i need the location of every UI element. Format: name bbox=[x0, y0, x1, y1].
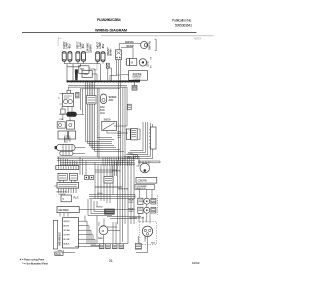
tick rows left of blocks bbox=[117, 132, 121, 138]
junction blob (connector wedge) bbox=[75, 69, 78, 80]
horizontals joining right cluster bbox=[107, 217, 141, 219]
connector J1 bbox=[150, 127, 156, 149]
svg-text:RELAY: RELAY bbox=[128, 208, 134, 211]
bottom label box bbox=[55, 252, 63, 255]
svg-text:ADAPTIVE: ADAPTIVE bbox=[133, 73, 142, 76]
fan motor M2 terminal box bbox=[127, 59, 130, 66]
defrost heater pill 1 bbox=[57, 144, 76, 150]
fan M1 bracket bbox=[155, 40, 157, 51]
condenser fan motor bbox=[140, 163, 150, 173]
svg-text:COND FAN: COND FAN bbox=[138, 180, 148, 183]
svg-text:OVLD: OVLD bbox=[128, 211, 133, 213]
connector strip box bbox=[56, 166, 79, 170]
small component right of verticals bbox=[128, 104, 132, 110]
bus tick hatching bbox=[67, 80, 138, 83]
adaptive defrost control box bbox=[129, 71, 148, 81]
terminal board box bbox=[63, 218, 79, 248]
svg-text:OR HTR: OR HTR bbox=[63, 235, 70, 237]
svg-text:TIMER: TIMER bbox=[98, 238, 104, 240]
defrost timer box bbox=[57, 207, 79, 213]
svg-text:40W: 40W bbox=[67, 43, 71, 48]
aux capsule right of thermostat bbox=[76, 92, 79, 98]
wires below S1 bbox=[110, 60, 121, 160]
small box row in bundle bbox=[87, 96, 97, 105]
bus lines right bbox=[89, 195, 135, 199]
svg-text:CONTROL: CONTROL bbox=[133, 79, 142, 81]
light switch box S1 bbox=[116, 50, 122, 60]
small squares right bbox=[84, 176, 88, 180]
tiny terminal rows bbox=[64, 136, 70, 142]
lamp lead wires bbox=[64, 61, 103, 81]
defrost heater pill 2 bbox=[60, 151, 73, 155]
svg-text:5995363641: 5995363641 bbox=[175, 24, 192, 28]
center capsule sensor bbox=[101, 94, 107, 104]
horizontal bus wires above lower cluster bbox=[57, 157, 135, 164]
svg-text:5: 5 bbox=[63, 197, 65, 201]
svg-text:Publication No.: Publication No. bbox=[172, 19, 192, 23]
relay box A bbox=[58, 173, 67, 180]
dashed wire near lamp L3 bbox=[94, 63, 98, 71]
svg-text:COMP: COMP bbox=[145, 235, 147, 241]
bus wire 4 bbox=[80, 88, 120, 90]
lamp L1a bbox=[62, 52, 66, 62]
fan motor M2 box bbox=[130, 59, 137, 66]
svg-text:SW 2: SW 2 bbox=[83, 74, 88, 76]
relay row A circle bbox=[144, 198, 150, 204]
svg-text:* = Non-Illustrated Parts: * = Non-Illustrated Parts bbox=[22, 261, 49, 265]
lamp L1b bbox=[68, 52, 72, 62]
comb wires into connector strip bbox=[59, 157, 77, 166]
relay box lower stubs bbox=[60, 180, 75, 182]
svg-text:3 15 2: 3 15 2 bbox=[100, 107, 106, 109]
bracket right of blocks bbox=[138, 129, 140, 140]
svg-text:EVAP FAN: EVAP FAN bbox=[149, 41, 152, 50]
wire S2 to bus bbox=[89, 69, 97, 81]
wires x95-116 y157-205 bbox=[95, 162, 113, 203]
lamp L3b bbox=[101, 52, 105, 62]
svg-text:WIRE HARNESS: WIRE HARNESS bbox=[59, 232, 62, 246]
condenser fan verticals bbox=[140, 161, 149, 164]
svg-text:1: 1 bbox=[58, 98, 60, 100]
right verticals from top row down bbox=[116, 75, 127, 163]
hatched plug row bbox=[99, 244, 123, 249]
svg-text:FAN MOTOR: FAN MOTOR bbox=[136, 187, 146, 190]
svg-text:RUN: RUN bbox=[151, 243, 155, 245]
stub left of wide box 2 bbox=[54, 185, 57, 187]
compressor dashed enclosure bbox=[140, 222, 157, 245]
heater pill right leads bbox=[73, 148, 85, 154]
svg-text:15 AMPS: 15 AMPS bbox=[89, 44, 93, 53]
lower small boxes bbox=[58, 131, 67, 139]
control box bbox=[61, 109, 65, 114]
fan motor M2 bbox=[139, 59, 146, 66]
cold control boxes bbox=[57, 122, 65, 128]
svg-text:21: 21 bbox=[109, 259, 113, 263]
small plus box bbox=[133, 155, 137, 159]
relay row B circle bbox=[144, 207, 150, 213]
svg-text:WIRING DIAGRAM: WIRING DIAGRAM bbox=[95, 29, 127, 33]
center vertical bundle wires bbox=[86, 82, 99, 159]
bus wire 3 bbox=[68, 86, 127, 88]
relay row B box bbox=[138, 207, 143, 213]
bundle elbows to right bbox=[86, 142, 124, 152]
timer box bottom stubs bbox=[60, 213, 68, 217]
extra bundle elbows bbox=[97, 138, 114, 140]
ground stub under defrost box bbox=[134, 80, 136, 85]
heater pill left nub bbox=[55, 146, 57, 149]
dark bar mid bbox=[95, 186, 122, 188]
svg-text:BU AUX: BU AUX bbox=[63, 243, 70, 246]
svg-text:NOTE 4: NOTE 4 bbox=[194, 38, 202, 41]
svg-text:SENSOR: SENSOR bbox=[109, 97, 117, 99]
svg-text:BK WH RD BU OR: BK WH RD BU OR bbox=[130, 218, 145, 220]
wire fuse to bus bbox=[108, 68, 112, 81]
lamp L2a bbox=[76, 52, 80, 62]
comb right of terminal board bbox=[85, 216, 97, 246]
terminal row wires bbox=[78, 221, 95, 244]
svg-text:40W: 40W bbox=[101, 43, 105, 48]
svg-text:OVLD: OVLD bbox=[128, 202, 133, 204]
comb under box 2 bbox=[59, 188, 77, 193]
fan motor M1 bbox=[141, 41, 148, 48]
defrost switch box bbox=[102, 121, 117, 130]
svg-text:CTRL: CTRL bbox=[59, 119, 64, 121]
wires below J1 bbox=[138, 161, 160, 163]
wires right of strip bbox=[80, 157, 86, 176]
ground sym compressor bbox=[137, 236, 139, 244]
svg-text:M: M bbox=[102, 229, 105, 233]
relay row A box bbox=[138, 198, 143, 204]
svg-text:RD CMP: RD CMP bbox=[63, 239, 70, 241]
svg-text:BK-WH: BK-WH bbox=[109, 49, 113, 56]
svg-text:ASSY: ASSY bbox=[109, 99, 115, 102]
wires from switch to right bbox=[107, 126, 128, 133]
header rule bbox=[22, 32, 197, 34]
svg-text:8 14 6: 8 14 6 bbox=[100, 110, 106, 112]
svg-text:WH LN1: WH LN1 bbox=[63, 221, 70, 223]
wire from label box bbox=[63, 246, 100, 252]
connector blocks center bbox=[126, 129, 130, 139]
small box (harness) bbox=[61, 195, 71, 202]
right dashed bracket bbox=[157, 196, 159, 216]
wire from timer right bbox=[79, 209, 135, 211]
svg-text:BK BK BK BK: BK BK BK BK bbox=[118, 188, 129, 190]
small fuse box bbox=[106, 63, 109, 68]
condenser fan label box bbox=[135, 185, 155, 190]
nested elbow wires to connector J1 bbox=[122, 122, 153, 159]
wires relay rows to compressor bbox=[139, 204, 150, 223]
condenser fan box bbox=[136, 177, 157, 183]
svg-text:CONN 2: CONN 2 bbox=[96, 207, 104, 209]
dashed corner wire top-left bbox=[58, 38, 62, 46]
wires between thermostat and bundle bbox=[81, 89, 83, 114]
compressor motor bbox=[142, 226, 152, 236]
svg-text:10/02: 10/02 bbox=[192, 261, 200, 265]
svg-text:BK LN2: BK LN2 bbox=[63, 226, 69, 228]
wire defrost box to left verticals bbox=[121, 74, 129, 76]
defrost thermostat box with circles bbox=[62, 93, 73, 106]
svg-text:40W: 40W bbox=[81, 43, 85, 48]
svg-text:M: M bbox=[131, 61, 134, 65]
bus wire 2 bbox=[68, 84, 127, 86]
stubs to relay rows bbox=[140, 190, 153, 199]
elbow cluster right of timer bbox=[88, 199, 112, 216]
svg-text:GR GND: GR GND bbox=[63, 230, 70, 232]
relay row B hatch cap bbox=[151, 207, 156, 213]
bus right bracket bbox=[137, 157, 140, 167]
door switch box S2a bbox=[79, 66, 89, 74]
svg-text:DEF TIMER: DEF TIMER bbox=[59, 209, 69, 212]
bus comb ticks right bbox=[103, 157, 134, 166]
svg-text:PLUG: PLUG bbox=[74, 198, 79, 200]
svg-text:FU-B2962C2B4: FU-B2962C2B4 bbox=[97, 18, 121, 22]
thermostat tab wire to bus bbox=[68, 87, 70, 90]
svg-text:1 10 4: 1 10 4 bbox=[100, 113, 106, 115]
svg-text:PLUG: PLUG bbox=[56, 254, 61, 256]
relay row A hatch cap bbox=[151, 198, 156, 204]
svg-text:CONN: CONN bbox=[128, 154, 134, 156]
extra curtain verticals bbox=[112, 161, 117, 176]
right tall verticals bbox=[118, 160, 135, 242]
bottom-left tall box bbox=[53, 220, 57, 249]
svg-text:COND: COND bbox=[147, 61, 149, 67]
lamp L3a bbox=[96, 52, 100, 62]
wide flat box 2 bbox=[57, 183, 79, 189]
wires around timer motor bbox=[99, 219, 120, 244]
relay component box bbox=[104, 177, 113, 184]
door switch box S2b bbox=[82, 71, 92, 78]
defrost timer motor bbox=[99, 226, 108, 235]
dark pill thermostat bbox=[66, 112, 77, 117]
lamp L2b bbox=[82, 52, 86, 62]
thick bus wire bbox=[67, 80, 141, 82]
relay box B bbox=[70, 173, 78, 180]
bottom horizontal wires bbox=[58, 224, 128, 250]
wire comp bottom bbox=[136, 237, 148, 253]
svg-text:RELAY: RELAY bbox=[128, 199, 134, 202]
faint top wire to right edge bbox=[101, 35, 214, 37]
dark connector block bbox=[105, 209, 115, 214]
wire elbow right bbox=[95, 170, 117, 172]
wires around dark pill bbox=[59, 107, 84, 121]
